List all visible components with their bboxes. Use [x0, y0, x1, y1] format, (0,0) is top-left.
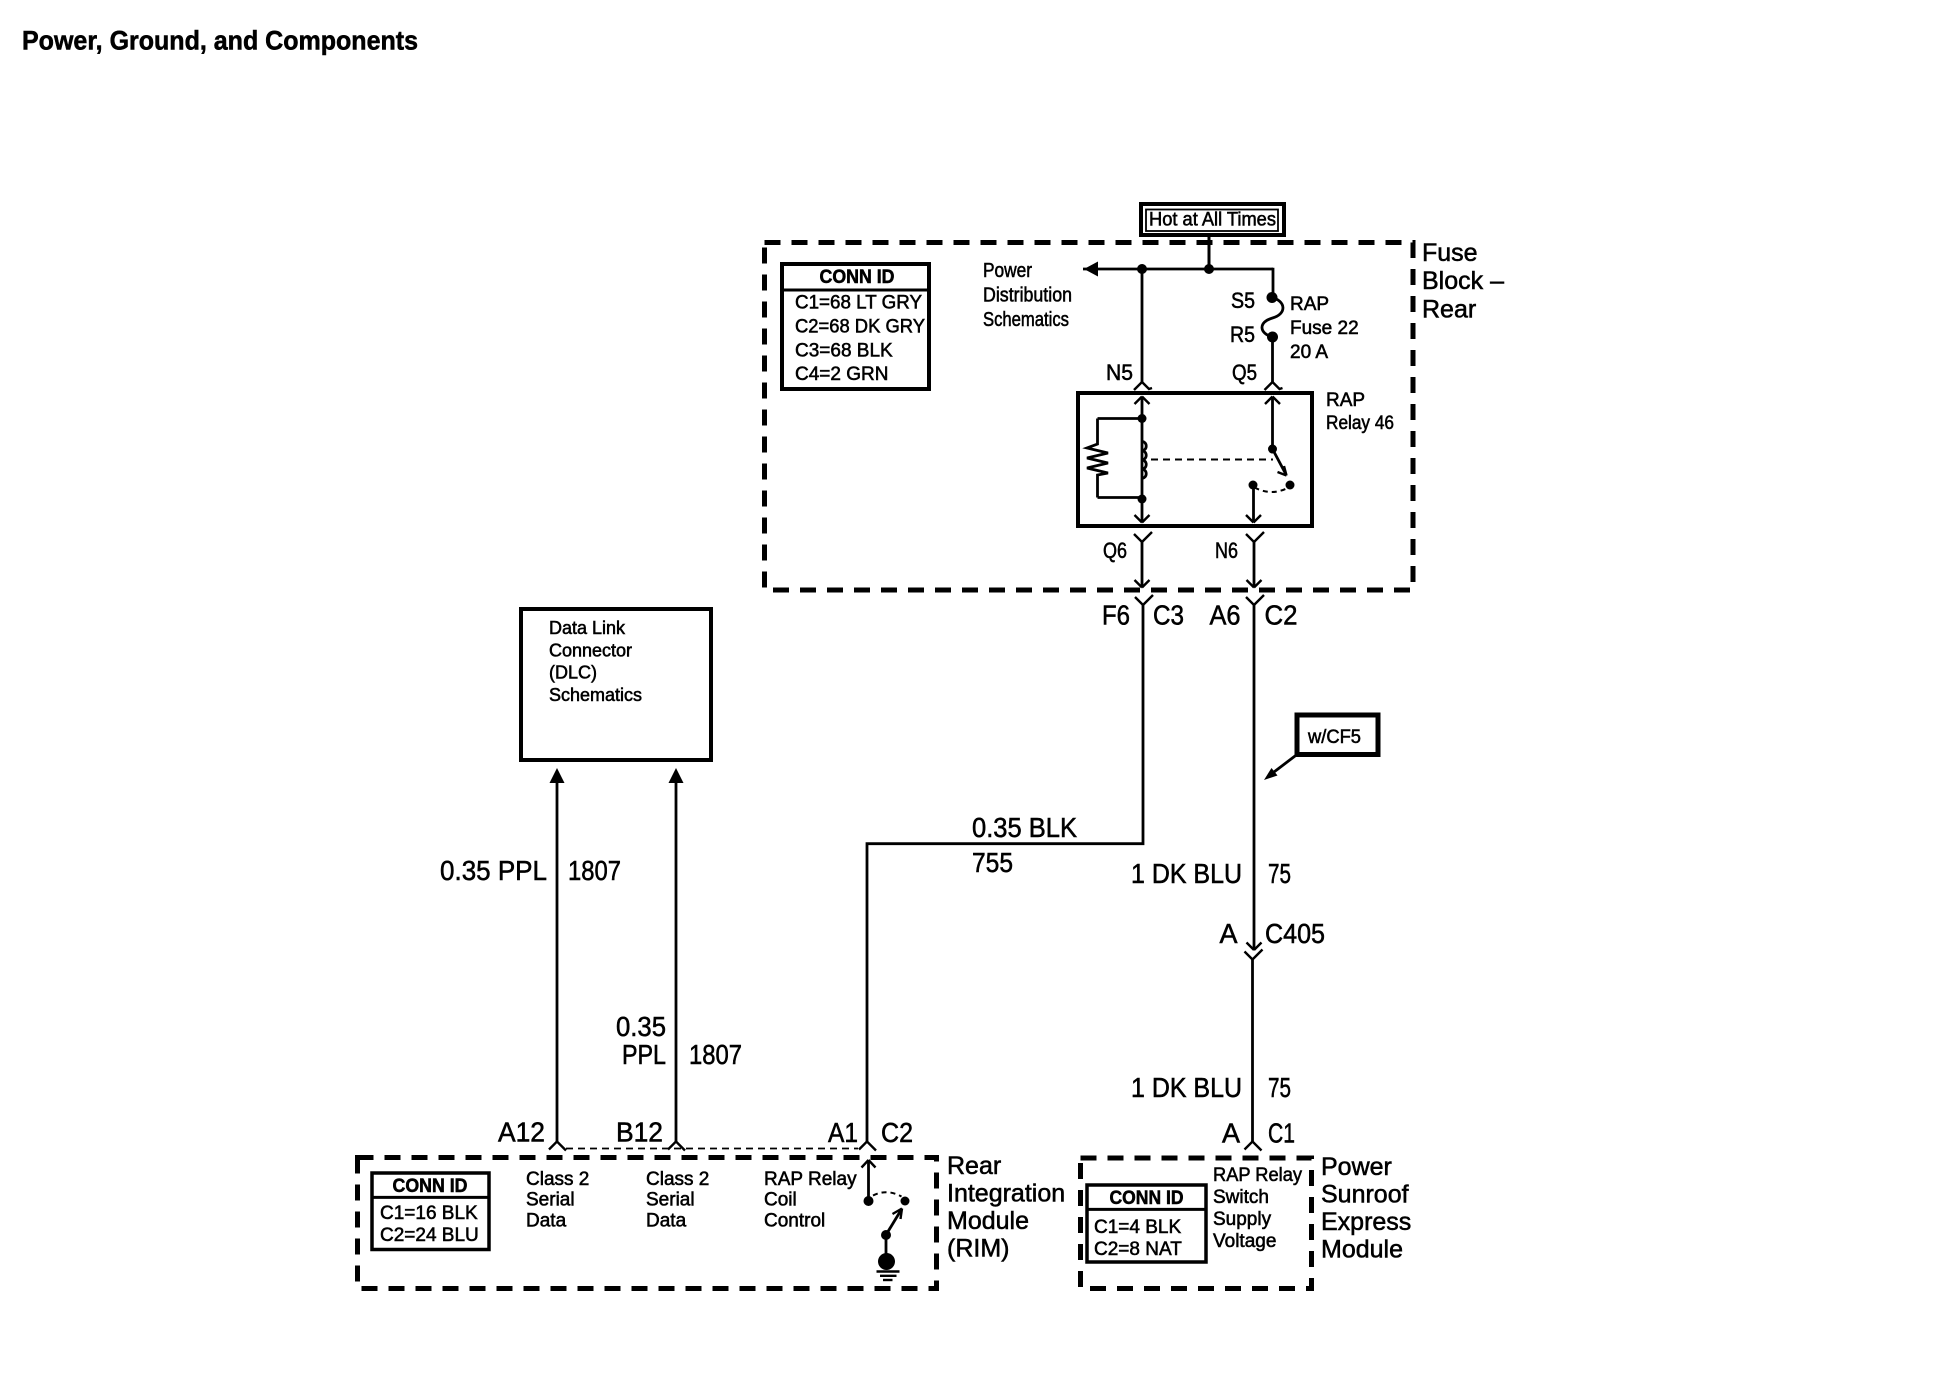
label: RAP Relay 46: [1326, 390, 1394, 434]
CONN ID table (RIM): [372, 1173, 489, 1250]
RIM coil control driver: arrow into module: [862, 1160, 876, 1197]
CONN ID table (sunroof): [1087, 1185, 1206, 1262]
thin dashed connector face line (RIM): [566, 1148, 858, 1150]
relay switch output arrow (N6 side): [1246, 487, 1261, 523]
wire A12 to DLC with arrow: [549, 768, 566, 1151]
dashed driver travel arc: [873, 1192, 902, 1196]
svg-text:0.35 PPL: 0.35 PPL: [440, 855, 547, 886]
svg-text:C2=24 BLU: C2=24 BLU: [380, 1225, 479, 1246]
svg-text:C1: C1: [1268, 1118, 1295, 1149]
svg-text:Q5: Q5: [1232, 360, 1257, 385]
fuse block - rear dashed enclosure: [765, 243, 1414, 591]
svg-text:C1=16 BLK: C1=16 BLK: [380, 1203, 478, 1224]
connector flare at RIM A1: [859, 1142, 876, 1151]
svg-text:Hot at All Times: Hot at All Times: [1149, 210, 1276, 231]
wire: N5 drop from bus: [1141, 269, 1144, 382]
wire B12 to DLC with arrow: [668, 768, 685, 1151]
label: Rear Integration Module (RIM): [947, 1152, 1065, 1263]
svg-text:Relay 46: Relay 46: [1326, 413, 1394, 434]
svg-text:Sunroof: Sunroof: [1321, 1181, 1409, 1209]
Rear Integration Module dashed box: [358, 1158, 937, 1289]
fuse RAP Fuse 22 20 A: [1262, 292, 1283, 343]
svg-text:Switch: Switch: [1213, 1187, 1269, 1208]
svg-text:C4=2 GRN: C4=2 GRN: [795, 364, 888, 385]
svg-text:Control: Control: [764, 1210, 825, 1231]
dashed switch travel arc: [1255, 488, 1289, 493]
node: junction dot bus/hot feed: [1204, 264, 1214, 274]
Hot at All Times box: [1141, 204, 1284, 235]
Data Link Connector (DLC) box: [521, 609, 711, 760]
wire: hot feed drop from Hot at All Times: [1208, 233, 1211, 269]
svg-text:CONN ID: CONN ID: [820, 267, 895, 288]
svg-text:C3: C3: [1153, 600, 1184, 631]
label: RAP Fuse 22 20 A: [1290, 294, 1359, 363]
node: switch pivot: [1268, 445, 1277, 454]
svg-text:Connector: Connector: [549, 640, 632, 660]
w/CF5 arrow: [1264, 755, 1297, 781]
connector flare Q5: [1265, 382, 1283, 390]
svg-text:Integration: Integration: [947, 1180, 1065, 1208]
node: driver switch fixed contact: [864, 1196, 874, 1206]
svg-text:Data: Data: [646, 1210, 687, 1231]
connector C405 flare and wire to sunroof module: [1245, 950, 1263, 1151]
wire: fuse to Q5 connector: [1271, 341, 1274, 382]
svg-text:Serial: Serial: [526, 1190, 575, 1211]
svg-text:Voltage: Voltage: [1213, 1231, 1276, 1252]
svg-text:B12: B12: [616, 1117, 663, 1148]
svg-text:A: A: [1220, 918, 1238, 949]
svg-text:Module: Module: [1321, 1236, 1403, 1264]
CONN ID table (fuse block): [782, 264, 929, 389]
svg-text:C1=4 BLK: C1=4 BLK: [1094, 1217, 1181, 1238]
svg-text:Class 2: Class 2: [526, 1169, 589, 1190]
svg-text:Schematics: Schematics: [983, 309, 1069, 331]
label: Fuse Block - Rear: [1422, 239, 1504, 323]
node: switch output contact: [1249, 481, 1258, 490]
svg-text:0.35: 0.35: [616, 1011, 666, 1042]
svg-text:Express: Express: [1321, 1208, 1411, 1236]
svg-text:CONN ID: CONN ID: [393, 1176, 468, 1197]
node: coil top junction: [1138, 414, 1147, 423]
wire: bus corner down to fuse: [1272, 268, 1275, 293]
svg-text:Power: Power: [1321, 1153, 1392, 1181]
svg-text:75: 75: [1268, 1072, 1291, 1103]
label: Class 2 Serial Data (col 1): [526, 1169, 589, 1231]
svg-text:R5: R5: [1230, 322, 1255, 347]
svg-text:N6: N6: [1215, 538, 1238, 563]
wire: F6 branch down, left, down to RIM A1: [867, 605, 1143, 1142]
svg-text:20 A: 20 A: [1290, 342, 1328, 363]
svg-text:C2: C2: [1265, 600, 1298, 631]
svg-text:(DLC): (DLC): [549, 663, 597, 683]
svg-text:0.35 BLK: 0.35 BLK: [972, 812, 1077, 843]
svg-text:RAP: RAP: [1326, 390, 1365, 411]
label: Power Distribution Schematics: [983, 260, 1072, 331]
relay coil output arrow (Q6 side): [1135, 499, 1150, 523]
driver switch arm: [887, 1209, 903, 1235]
node: switch throw contact: [1286, 481, 1295, 490]
wire N6: relay to fuse block edge: [1246, 532, 1264, 588]
svg-text:Fuse: Fuse: [1422, 239, 1478, 267]
svg-text:Coil: Coil: [764, 1190, 797, 1211]
svg-text:Module: Module: [947, 1207, 1029, 1235]
relay switch input arrow (Q5 side): [1265, 397, 1280, 450]
svg-text:C2=8 NAT: C2=8 NAT: [1094, 1239, 1182, 1260]
connector A6/C2 flare: [1246, 595, 1264, 605]
svg-text:Schematics: Schematics: [549, 685, 642, 705]
wire Q6: relay to fuse block edge: [1134, 532, 1152, 588]
svg-text:RAP: RAP: [1290, 294, 1329, 315]
svg-text:Power: Power: [983, 260, 1032, 282]
wire: horizontal bus to power distribution: [1083, 268, 1273, 271]
connector F6/C3 flare: [1135, 595, 1153, 605]
relay coil: [1142, 419, 1146, 500]
wire: A6 branch down to C405: [1247, 605, 1262, 950]
label: 0.35 / PPL (B12): [616, 1011, 666, 1070]
svg-text:Power, Ground, and Components: Power, Ground, and Components: [22, 26, 418, 56]
connector flare N5: [1134, 382, 1152, 390]
RAP Relay 46 box: [1078, 393, 1312, 526]
svg-text:(RIM): (RIM): [947, 1235, 1009, 1263]
svg-text:C405: C405: [1265, 918, 1325, 949]
svg-text:Supply: Supply: [1213, 1209, 1272, 1230]
svg-text:A12: A12: [498, 1117, 545, 1148]
svg-text:A: A: [1222, 1118, 1240, 1149]
svg-text:Serial: Serial: [646, 1190, 695, 1211]
svg-text:C2: C2: [881, 1117, 913, 1148]
svg-text:C3=68 BLK: C3=68 BLK: [795, 341, 893, 362]
svg-text:1807: 1807: [568, 855, 621, 886]
svg-text:C2=68 DK GRY: C2=68 DK GRY: [795, 317, 925, 338]
svg-text:C1=68 LT GRY: C1=68 LT GRY: [795, 293, 922, 314]
svg-text:S5: S5: [1231, 288, 1255, 313]
svg-text:RAP Relay: RAP Relay: [764, 1169, 857, 1190]
label: RAP Relay Coil Control: [764, 1169, 857, 1231]
svg-text:Data Link: Data Link: [549, 618, 626, 638]
svg-text:75: 75: [1268, 858, 1291, 889]
node: junction dot bus/N5: [1137, 264, 1147, 274]
svg-text:F6: F6: [1102, 600, 1130, 631]
resistor (relay): [1087, 419, 1108, 498]
label: Class 2 Serial Data (col 2): [646, 1169, 709, 1231]
svg-text:PPL: PPL: [622, 1039, 666, 1070]
svg-text:A6: A6: [1210, 600, 1241, 631]
svg-text:RAP Relay: RAP Relay: [1213, 1165, 1302, 1186]
svg-text:Distribution: Distribution: [983, 285, 1072, 307]
node: driver switch common: [881, 1230, 891, 1240]
Power Sunroof Express Module dashed box: [1081, 1158, 1312, 1289]
wire: resistor top link: [1098, 417, 1143, 420]
svg-text:Rear: Rear: [1422, 295, 1476, 323]
svg-text:N5: N5: [1106, 360, 1133, 385]
relay coil input arrow (N5 side): [1135, 397, 1150, 419]
svg-text:Fuse 22: Fuse 22: [1290, 318, 1359, 339]
node: driver switch throw contact: [901, 1197, 910, 1206]
relay switch arm: [1273, 449, 1287, 476]
svg-text:A1: A1: [828, 1117, 858, 1148]
ground (RIM internal): [877, 1239, 900, 1280]
svg-text:Rear: Rear: [947, 1152, 1001, 1180]
dashed coil-switch link: [1151, 459, 1273, 461]
label: RAP Relay Switch Supply Voltage: [1213, 1165, 1302, 1252]
wire: resistor bottom link: [1098, 496, 1143, 499]
svg-text:Q6: Q6: [1103, 538, 1127, 563]
svg-text:755: 755: [972, 847, 1013, 878]
svg-text:Block –: Block –: [1422, 267, 1504, 295]
svg-text:Data: Data: [526, 1210, 567, 1231]
svg-text:w/CF5: w/CF5: [1307, 727, 1361, 748]
svg-text:1 DK BLU: 1 DK BLU: [1131, 1072, 1242, 1103]
node: coil bottom junction: [1138, 495, 1147, 504]
label: Power Sunroof Express Module: [1321, 1153, 1411, 1264]
svg-text:1 DK BLU: 1 DK BLU: [1131, 858, 1242, 889]
svg-text:1807: 1807: [689, 1039, 742, 1070]
arrowhead to power distribution schematics: [1084, 262, 1098, 277]
svg-text:CONN ID: CONN ID: [1110, 1188, 1184, 1209]
svg-text:Class 2: Class 2: [646, 1169, 709, 1190]
w/CF5 callout box: [1297, 715, 1378, 755]
